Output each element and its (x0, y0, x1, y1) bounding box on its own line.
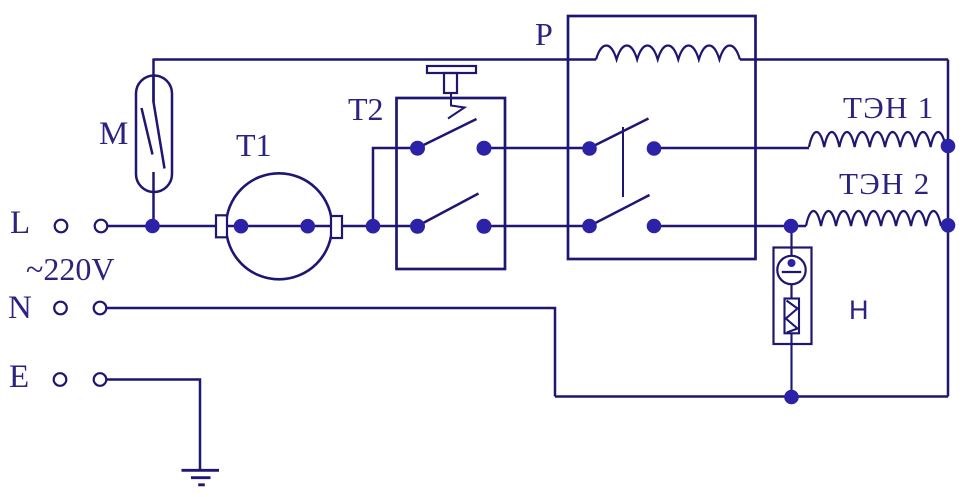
junction lamp bottom (784, 390, 799, 405)
wire N from terminal to bottom return (107, 308, 555, 397)
svg-text:P: P (535, 16, 553, 52)
terminal L circles (55, 220, 108, 233)
wire main line L row (107, 225, 791, 228)
wire bottom return (555, 395, 948, 398)
heating element TEN2 (791, 211, 948, 226)
P upper contact lever (590, 119, 649, 149)
svg-text:T1: T1 (236, 127, 272, 163)
svg-text:M: M (99, 116, 128, 152)
pushbutton actuator arrow (448, 93, 465, 119)
node TEN2 right (941, 218, 956, 233)
label M (99, 116, 128, 152)
svg-text:~220V: ~220V (26, 251, 114, 287)
wire M top lead (152, 59, 155, 103)
switch block T2 (397, 98, 506, 269)
terminal block left of T1 (216, 215, 227, 237)
label TEN2 (839, 166, 931, 201)
label P (535, 16, 553, 52)
svg-text:Н: Н (849, 295, 869, 325)
P contact mechanical link (622, 127, 624, 197)
label H lamp (849, 295, 869, 325)
junction L-M (145, 219, 160, 234)
T2 lower right contact (477, 219, 492, 234)
thermostat T1 (226, 173, 332, 279)
P lower contact lever (590, 195, 650, 226)
label T2 (348, 91, 384, 127)
P upper left contact (582, 141, 597, 156)
label N (8, 290, 32, 326)
wire M bottom lead (152, 172, 155, 226)
terminal E circles (54, 373, 107, 386)
T2 upper contact lever (418, 119, 477, 148)
wire top from M to relay P coil (154, 58, 949, 61)
T2 upper right contact (477, 141, 492, 156)
relay P box (568, 16, 756, 259)
indicator lamp H body (774, 226, 812, 344)
wire T2 upper output to P upper contact (484, 147, 590, 150)
label ~220V (26, 251, 114, 287)
P lower right contact (647, 219, 662, 234)
wire E to ground (107, 380, 200, 471)
pushbutton cap of T2 (427, 66, 476, 93)
node TEN1 right (941, 139, 956, 154)
terminal N circles (54, 302, 106, 315)
svg-text:ТЭН 1: ТЭН 1 (843, 90, 935, 125)
label L (10, 205, 30, 241)
junction TEN2 lamp top (784, 219, 799, 234)
svg-text:N: N (8, 290, 32, 326)
label TEN1 (843, 90, 935, 125)
wire P upper output to TEN1 (654, 147, 809, 150)
svg-text:ТЭН 2: ТЭН 2 (839, 166, 931, 201)
T2 lower contact lever (418, 194, 479, 227)
heating element TEN1 (809, 132, 948, 147)
relay coil P (596, 45, 740, 59)
svg-text:E: E (9, 359, 29, 395)
ground (182, 470, 220, 485)
lamp electrode dot (788, 259, 796, 267)
T2 lower left contact (410, 219, 425, 234)
label E (9, 359, 29, 395)
P lower left contact (582, 219, 597, 234)
wire right vertical bus (947, 60, 950, 397)
lamp series resistor (785, 299, 800, 398)
svg-text:T2: T2 (348, 91, 384, 127)
svg-text:L: L (10, 205, 30, 241)
label T1 (236, 127, 272, 163)
junction T1-T2 branch (366, 219, 381, 234)
thermal cutout M (136, 76, 172, 193)
terminal block right of T1 (331, 216, 342, 238)
T1 contact dot right (300, 219, 315, 234)
T1 contact dot left (234, 219, 249, 234)
T2 upper left contact (410, 141, 425, 156)
P upper right contact (647, 141, 662, 156)
wire branch T1 to T2 upper contact (373, 148, 418, 226)
